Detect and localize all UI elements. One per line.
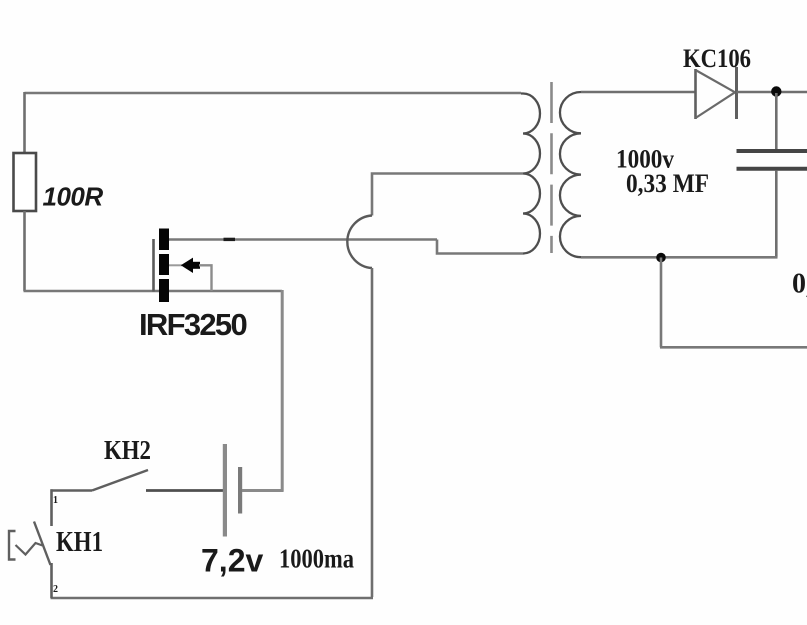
wire capacitor to secondary bottom — [775, 171, 778, 258]
svg-text:2: 2 — [53, 584, 58, 595]
wire top rail — [25, 92, 522, 95]
transistor Q1 body bar — [159, 254, 169, 275]
transistor Q1 source bar — [159, 279, 169, 302]
transistor Q1 gate line — [152, 239, 155, 292]
diode D1 anode bar — [694, 69, 697, 119]
transformer T1 primary winding — [521, 94, 540, 254]
diode D1 triangle — [696, 70, 736, 118]
capacitor C1 bottom plate — [737, 167, 807, 171]
wire mid-tap lower vertical — [371, 268, 374, 597]
transistor Q1 body arrow shaft — [192, 262, 201, 269]
junction dash on drain wire — [224, 238, 236, 241]
battery B1 negative plate — [238, 467, 242, 514]
wire body bar to arrow — [169, 264, 182, 266]
wire source rail — [24, 290, 283, 293]
resistor R1 — [14, 153, 37, 211]
switch KH1 actuator bracket — [9, 531, 16, 560]
wire battery to source vertical — [242, 290, 284, 492]
wire to right edge lower — [660, 346, 807, 349]
wire left vertical lower — [23, 211, 26, 291]
switch KH1 lower contact — [50, 563, 53, 598]
transistor Q1 drain bar — [159, 229, 169, 251]
junction node bottom — [656, 253, 666, 263]
svg-text:100R: 100R — [43, 182, 104, 212]
svg-text:7,2v: 7,2v — [201, 543, 263, 579]
wire KH1 to KH2 — [51, 489, 93, 492]
wire secondary bottom rail — [581, 256, 778, 259]
svg-text:1000ma: 1000ma — [279, 544, 354, 574]
svg-text:0,33 MF: 0,33 MF — [626, 169, 709, 198]
switch KH1 spring link — [16, 543, 43, 555]
wire primary mid-tap — [372, 174, 523, 216]
svg-text:1: 1 — [53, 495, 58, 506]
wire secondary top to diode — [581, 91, 695, 93]
capacitor C1 top plate — [737, 149, 807, 153]
wire diode to right edge — [737, 91, 807, 93]
wire left vertical upper — [23, 92, 26, 154]
svg-text:IRF3250: IRF3250 — [139, 307, 246, 342]
transformer T1 core — [550, 82, 553, 253]
wire drain rail — [169, 238, 437, 241]
svg-text:KH2: KH2 — [104, 435, 151, 465]
wire node to capacitor — [775, 93, 778, 149]
junction node top — [771, 86, 781, 96]
switch KH2 blade — [92, 470, 148, 491]
switch KH1 blade — [34, 522, 51, 566]
battery B1 positive plate — [223, 444, 227, 537]
wire drain jog — [437, 240, 523, 254]
svg-text:0,: 0, — [792, 269, 807, 300]
transformer T1 secondary winding — [560, 92, 581, 257]
svg-text:KC106: KC106 — [683, 44, 751, 73]
switch KH1 upper contact — [50, 489, 53, 526]
wire body to source — [199, 265, 212, 291]
transistor Q1 body arrow — [181, 258, 193, 273]
wire node down — [660, 258, 663, 348]
svg-text:KH1: KH1 — [56, 527, 103, 558]
diode D1 cathode bar — [735, 67, 738, 119]
wire hop over drain — [347, 216, 372, 269]
wire KH2 to battery — [146, 489, 223, 492]
wire bottom rail — [51, 597, 374, 600]
